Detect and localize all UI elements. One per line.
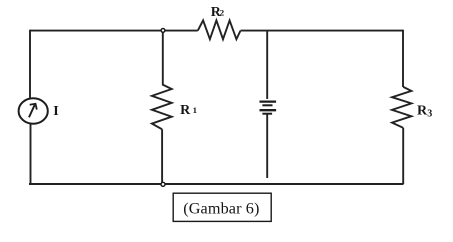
svg-text:I: I bbox=[53, 104, 58, 119]
current source arrow head bbox=[30, 104, 37, 110]
svg-text:3: 3 bbox=[427, 109, 432, 120]
wire middle branch upper bbox=[266, 31, 268, 99]
wire left upper bbox=[29, 30, 31, 99]
battery V1 plate short lower bbox=[262, 113, 272, 115]
wire R1 branch lower bbox=[161, 129, 163, 183]
wire R1 branch upper bbox=[161, 32, 164, 84]
caption box bbox=[173, 193, 271, 221]
label R1 bbox=[180, 103, 197, 118]
wire top-left segment bbox=[30, 30, 198, 32]
svg-text:(Gambar 6): (Gambar 6) bbox=[183, 200, 259, 218]
resistor R1 bbox=[152, 84, 172, 129]
label R3 bbox=[417, 104, 432, 120]
current source I circle bbox=[19, 98, 48, 123]
node junction bottom (R1 / bottom rail) bbox=[161, 182, 165, 186]
wire left lower bbox=[30, 123, 32, 184]
wire right upper bbox=[402, 30, 404, 87]
wire middle branch lower bbox=[266, 114, 268, 178]
resistor R2 bbox=[198, 20, 241, 39]
svg-text:1: 1 bbox=[193, 105, 197, 115]
battery V1 plate long bottom bbox=[260, 109, 277, 111]
wire top-right segment bbox=[241, 30, 404, 32]
resistor R3 bbox=[392, 87, 411, 128]
current source arrow shaft bbox=[29, 105, 35, 118]
wire right lower bbox=[402, 128, 404, 184]
node junction top (R1 / top rail) bbox=[161, 29, 165, 33]
svg-text:2: 2 bbox=[220, 7, 225, 17]
svg-text:R: R bbox=[180, 103, 191, 118]
battery V1 plate long top bbox=[260, 100, 277, 102]
battery V1 plate short upper bbox=[262, 104, 272, 106]
label R2 bbox=[211, 5, 225, 20]
wire bottom bbox=[29, 183, 404, 185]
